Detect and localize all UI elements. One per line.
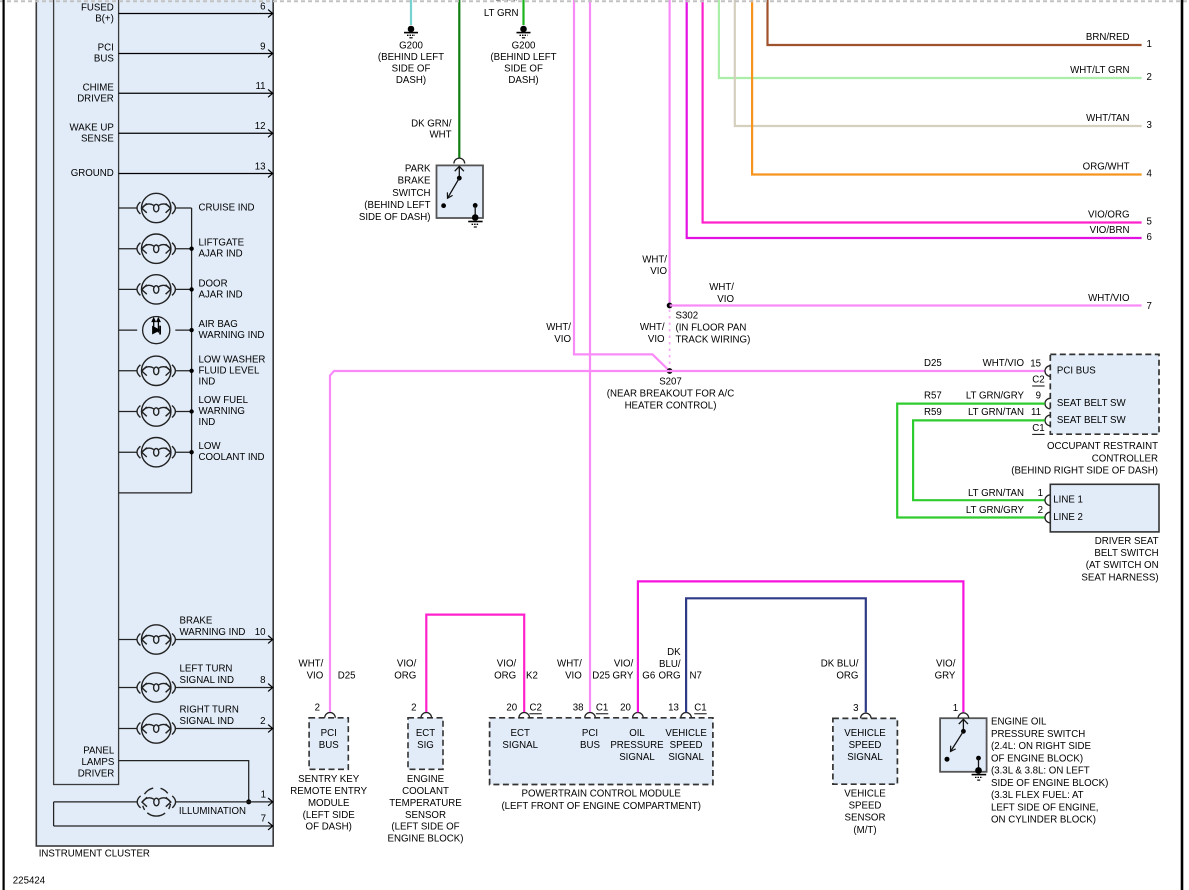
svg-text:BUS: BUS [580, 740, 600, 751]
svg-text:S207: S207 [659, 377, 682, 388]
wire LT GRN to G200 right [522, 0, 524, 25]
svg-text:8: 8 [260, 675, 265, 686]
svg-text:DRIVER: DRIVER [77, 93, 114, 104]
wire DK GRN/WHT to park brake switch [458, 0, 460, 158]
svg-text:AIR BAG: AIR BAG [199, 319, 238, 330]
svg-text:(LEFT FRONT OF ENGINE COMPARTM: (LEFT FRONT OF ENGINE COMPARTMENT) [501, 801, 701, 812]
wire VIO/ORG ect sensor to PCM [426, 615, 524, 713]
wire wake up sense pin 12 [119, 132, 273, 134]
svg-text:C2: C2 [530, 702, 542, 713]
svg-text:VEHICLE: VEHICLE [844, 789, 886, 800]
wire WHT/VIO branch A from top to S207 [574, 0, 670, 371]
svg-text:RIGHT TURN: RIGHT TURN [180, 704, 239, 715]
wire fused b+ pin 6 [119, 13, 273, 15]
low fuel warning ind lamp [119, 411, 138, 413]
wire ORG/WHT pin 4 [752, 0, 1142, 175]
splice S302 [667, 303, 673, 309]
svg-text:B(+): B(+) [95, 14, 114, 25]
park brake switch internals [458, 167, 460, 179]
svg-text:ILLUMINATION: ILLUMINATION [179, 806, 246, 817]
svg-text:VIO/BRN: VIO/BRN [1090, 225, 1130, 236]
svg-text:VEHICLE: VEHICLE [665, 728, 707, 739]
svg-text:TEMPERATURE: TEMPERATURE [389, 798, 462, 809]
svg-text:(2.4L: ON RIGHT SIDE: (2.4L: ON RIGHT SIDE [991, 741, 1091, 752]
illumination return pin 7 [54, 825, 273, 827]
svg-text:OF DASH): OF DASH) [306, 822, 352, 833]
svg-text:SPEED: SPEED [670, 740, 703, 751]
svg-text:ENGINE: ENGINE [407, 774, 445, 785]
svg-text:SPEED: SPEED [849, 801, 882, 812]
powertrain control module box [490, 718, 713, 785]
svg-text:CONTROLLER: CONTROLLER [1092, 453, 1158, 464]
svg-text:3: 3 [853, 703, 858, 714]
svg-text:ON CYLINDER BLOCK): ON CYLINDER BLOCK) [991, 815, 1096, 826]
svg-text:WHT/: WHT/ [642, 254, 667, 265]
svg-text:LINE 2: LINE 2 [1053, 512, 1083, 523]
svg-text:ORG: ORG [659, 671, 681, 682]
svg-text:BRAKE: BRAKE [398, 176, 431, 187]
svg-text:N7: N7 [690, 671, 702, 682]
svg-text:LT GRN/TAN: LT GRN/TAN [968, 407, 1024, 418]
svg-text:WHT/LT GRN: WHT/LT GRN [1070, 65, 1129, 76]
wire LT GRN/TAN R59 ORC pin 11 to seat belt switch line 1 [913, 420, 1045, 500]
svg-text:SIG: SIG [417, 740, 434, 751]
svg-text:SPEED: SPEED [849, 740, 882, 751]
svg-text:VIO: VIO [648, 334, 665, 345]
wire BRN/RED pin 1 [768, 0, 1142, 45]
svg-text:WHT/TAN: WHT/TAN [1086, 113, 1129, 124]
lamp collector bus line [191, 208, 193, 493]
svg-text:WARNING: WARNING [199, 406, 245, 417]
svg-text:SIGNAL: SIGNAL [668, 752, 704, 763]
svg-text:WAKE UP: WAKE UP [69, 122, 113, 133]
air bag warning ind (LED) [119, 329, 138, 331]
panel lamps driver wire [119, 761, 249, 802]
svg-text:15: 15 [1030, 358, 1041, 369]
svg-text:2: 2 [260, 716, 265, 727]
svg-text:11: 11 [1031, 407, 1041, 418]
svg-text:ENGINE OIL: ENGINE OIL [991, 717, 1047, 728]
svg-text:VIO: VIO [554, 334, 571, 345]
svg-text:9: 9 [260, 41, 265, 52]
svg-text:BELT SWITCH: BELT SWITCH [1094, 548, 1158, 559]
svg-text:GRY: GRY [935, 670, 956, 681]
wire WHT/VIO branch B from top to PCM pin 38 [589, 0, 591, 712]
svg-text:(LEFT SIDE: (LEFT SIDE [303, 810, 356, 821]
svg-text:LT GRN/GRY: LT GRN/GRY [966, 505, 1025, 516]
svg-text:C1: C1 [596, 702, 608, 713]
instrument cluster inner module box [54, 0, 119, 785]
svg-text:REMOTE ENTRY: REMOTE ENTRY [290, 786, 367, 797]
svg-text:LOW FUEL: LOW FUEL [199, 395, 249, 406]
svg-text:LT GRN: LT GRN [484, 8, 519, 19]
svg-text:SIDE OF: SIDE OF [392, 64, 431, 75]
park brake switch ground [468, 221, 482, 223]
svg-text:2: 2 [315, 702, 320, 713]
svg-text:1: 1 [1147, 39, 1152, 50]
svg-text:WHT/: WHT/ [640, 322, 665, 333]
svg-text:LT GRN/GRY: LT GRN/GRY [966, 391, 1025, 402]
svg-text:PARK: PARK [405, 163, 431, 174]
svg-text:LT GRN/TAN: LT GRN/TAN [968, 488, 1024, 499]
svg-text:1: 1 [261, 789, 266, 800]
svg-text:R57: R57 [924, 391, 942, 402]
svg-text:3: 3 [1147, 120, 1152, 131]
svg-text:1: 1 [1038, 488, 1043, 499]
svg-text:LOW: LOW [199, 441, 222, 452]
svg-text:WHT/: WHT/ [299, 658, 324, 669]
wire VIO/BRN pin 6 [687, 0, 1142, 238]
ORC pin 15 connector [1045, 366, 1050, 377]
svg-text:DASH): DASH) [508, 75, 538, 86]
svg-text:FUSED: FUSED [81, 3, 114, 14]
ORC pin 9 connector [1045, 398, 1050, 409]
svg-text:SIDE OF: SIDE OF [504, 64, 543, 75]
PCM pin 20 C2 ect signal connector [519, 712, 530, 717]
svg-text:10: 10 [255, 627, 266, 638]
svg-text:PCI: PCI [98, 43, 114, 54]
svg-text:SIGNAL IND: SIGNAL IND [180, 675, 235, 686]
svg-text:D25: D25 [924, 358, 942, 369]
svg-text:SIGNAL: SIGNAL [847, 752, 883, 763]
svg-text:ECT: ECT [416, 728, 435, 739]
svg-text:C1: C1 [1032, 423, 1044, 434]
svg-text:CRUISE IND: CRUISE IND [199, 203, 255, 214]
svg-text:AJAR IND: AJAR IND [199, 289, 243, 300]
svg-text:D25: D25 [592, 671, 610, 682]
svg-text:WARNING IND: WARNING IND [180, 627, 246, 638]
svg-text:PCI: PCI [321, 728, 337, 739]
svg-text:LINE 1: LINE 1 [1053, 495, 1083, 506]
svg-text:ORG: ORG [394, 670, 416, 681]
svg-text:IND: IND [199, 417, 216, 428]
svg-text:VIO: VIO [307, 670, 324, 681]
svg-text:9: 9 [1036, 391, 1041, 402]
svg-text:4: 4 [1147, 169, 1153, 180]
engine oil pressure switch ground [972, 774, 987, 776]
svg-text:OF ENGINE BLOCK): OF ENGINE BLOCK) [991, 753, 1083, 764]
DSBS line 2 connector [1045, 512, 1050, 523]
svg-text:WHT: WHT [429, 129, 451, 140]
svg-text:(LEFT SIDE OF: (LEFT SIDE OF [391, 822, 459, 833]
svg-text:C2: C2 [1032, 375, 1044, 386]
park brake switch connector arc [454, 158, 465, 163]
svg-text:2: 2 [1147, 72, 1152, 83]
svg-text:WHT/VIO: WHT/VIO [1088, 293, 1130, 304]
svg-text:IND: IND [199, 376, 216, 387]
wire WHT/LT GRN pin 2 [719, 0, 1142, 78]
svg-text:(BEHIND LEFT: (BEHIND LEFT [490, 52, 556, 63]
brake warning ind lamp pin 10 [119, 639, 138, 641]
liftgate ajar ind lamp [119, 248, 138, 250]
svg-text:SEAT BELT SW: SEAT BELT SW [1057, 415, 1127, 426]
svg-text:(AT SWITCH ON: (AT SWITCH ON [1086, 560, 1159, 571]
svg-text:7: 7 [1147, 301, 1152, 312]
svg-text:VIO/ORG: VIO/ORG [1088, 210, 1129, 221]
svg-text:D25: D25 [338, 670, 356, 681]
unlabeled wire segment S302 to S207 [669, 310, 671, 368]
svg-text:WHT/: WHT/ [709, 282, 734, 293]
svg-text:20: 20 [620, 702, 631, 713]
svg-text:INSTRUMENT CLUSTER: INSTRUMENT CLUSTER [39, 848, 150, 859]
svg-text:BLU/: BLU/ [659, 659, 681, 670]
svg-text:SENSOR: SENSOR [845, 813, 886, 824]
wire DK BLU/ORG PCM to vehicle speed sensor [686, 598, 866, 712]
svg-text:VIO/: VIO/ [614, 659, 634, 670]
svg-text:PANEL: PANEL [83, 746, 115, 757]
svg-text:LIFTGATE: LIFTGATE [199, 238, 245, 249]
ground G200 right [520, 26, 527, 33]
svg-text:ECT: ECT [511, 728, 530, 739]
svg-text:VIO: VIO [650, 266, 667, 277]
ground G200 left [408, 26, 415, 33]
svg-text:ORG/WHT: ORG/WHT [1083, 162, 1130, 173]
svg-text:2: 2 [411, 702, 416, 713]
svg-text:OCCUPANT RESTRAINT: OCCUPANT RESTRAINT [1047, 441, 1158, 452]
svg-text:SIGNAL: SIGNAL [502, 740, 538, 751]
engine oil pressure switch internals [962, 719, 964, 731]
svg-text:VEHICLE: VEHICLE [844, 728, 886, 739]
svg-text:SEAT HARNESS): SEAT HARNESS) [1081, 572, 1158, 583]
svg-text:SWITCH: SWITCH [392, 188, 430, 199]
svg-text:BRN/RED: BRN/RED [1086, 32, 1130, 43]
svg-text:K2: K2 [526, 670, 538, 681]
svg-text:TRACK WIRING): TRACK WIRING) [676, 334, 751, 345]
driver seat belt switch box [1050, 484, 1159, 532]
svg-text:G6: G6 [642, 671, 655, 682]
svg-text:PRESSURE: PRESSURE [610, 740, 664, 751]
svg-text:(3.3L FLEX FUEL: AT: (3.3L FLEX FUEL: AT [991, 790, 1084, 801]
svg-text:LOW WASHER: LOW WASHER [199, 354, 266, 365]
svg-text:13: 13 [668, 702, 679, 713]
PCM pin 20 oil pressure signal connector [633, 712, 644, 717]
svg-text:MODULE: MODULE [308, 798, 350, 809]
svg-text:C1: C1 [694, 702, 706, 713]
svg-text:BUS: BUS [94, 54, 114, 65]
instrument cluster box [36, 0, 273, 846]
svg-text:38: 38 [573, 702, 584, 713]
svg-text:SENSE: SENSE [81, 133, 114, 144]
svg-text:7: 7 [261, 814, 266, 825]
wire chime driver pin 11 [119, 92, 273, 94]
vehicle speed signal box [833, 718, 898, 784]
svg-text:SENSOR: SENSOR [405, 810, 446, 821]
svg-text:DASH): DASH) [396, 75, 426, 86]
svg-text:PCI BUS: PCI BUS [1057, 366, 1096, 377]
svg-text:PCI: PCI [582, 728, 598, 739]
svg-text:5: 5 [1147, 217, 1152, 228]
page border frame [0, 0, 1189, 2]
svg-text:WHT/VIO: WHT/VIO [983, 358, 1025, 369]
svg-text:11: 11 [255, 81, 265, 92]
wire WHT/VIO S207 left branch down to sentry key module [330, 371, 670, 712]
svg-text:POWERTRAIN CONTROL MODULE: POWERTRAIN CONTROL MODULE [522, 789, 682, 800]
svg-text:G200: G200 [399, 41, 423, 52]
svg-text:SIGNAL: SIGNAL [619, 752, 655, 763]
svg-text:CHIME: CHIME [83, 82, 115, 93]
PCM pin 38 C1 pci bus connector [585, 712, 596, 717]
low coolant ind lamp [119, 451, 138, 453]
occupant restraint controller box [1050, 354, 1159, 434]
svg-text:(BEHIND LEFT: (BEHIND LEFT [378, 52, 444, 63]
svg-text:G200: G200 [512, 41, 536, 52]
svg-text:HEATER CONTROL): HEATER CONTROL) [625, 401, 717, 412]
DSBS line 1 connector [1045, 495, 1050, 506]
svg-text:SENTRY KEY: SENTRY KEY [298, 774, 360, 785]
svg-text:VIO/: VIO/ [936, 658, 956, 669]
ORC pin 11 connector [1045, 415, 1050, 426]
svg-text:SIDE OF ENGINE BLOCK): SIDE OF ENGINE BLOCK) [991, 778, 1108, 789]
wire pci bus pin 9 [119, 53, 273, 55]
svg-text:ENGINE BLOCK): ENGINE BLOCK) [388, 834, 464, 845]
svg-text:R59: R59 [924, 407, 942, 418]
svg-text:2: 2 [1038, 505, 1043, 516]
svg-text:(NEAR BREAKOUT FOR A/C: (NEAR BREAKOUT FOR A/C [607, 389, 734, 400]
wire to G200 left (teal) [410, 0, 412, 25]
left turn signal ind lamp pin 8 [119, 687, 138, 689]
svg-text:DRIVER: DRIVER [78, 769, 115, 780]
svg-text:6: 6 [1147, 232, 1152, 243]
svg-text:PRESSURE SWITCH: PRESSURE SWITCH [991, 729, 1085, 740]
svg-text:SIDE OF DASH): SIDE OF DASH) [359, 212, 431, 223]
svg-text:(IN FLOOR PAN: (IN FLOOR PAN [676, 322, 747, 333]
svg-text:VIO: VIO [717, 294, 734, 305]
svg-text:(BEHIND LEFT: (BEHIND LEFT [364, 200, 430, 211]
splice S207 [667, 368, 673, 374]
door ajar ind lamp [119, 288, 138, 290]
svg-text:DK GRN/: DK GRN/ [411, 119, 452, 130]
svg-text:AJAR IND: AJAR IND [199, 249, 243, 260]
cruise ind lamp [119, 207, 138, 209]
wire WHT/TAN pin 3 [735, 0, 1142, 126]
wire ground pin 13 [119, 173, 273, 175]
svg-text:WHT/: WHT/ [546, 322, 571, 333]
svg-text:13: 13 [255, 161, 266, 172]
svg-text:1: 1 [953, 703, 958, 714]
svg-text:VIO: VIO [565, 671, 582, 682]
svg-text:LEFT SIDE OF ENGINE,: LEFT SIDE OF ENGINE, [991, 802, 1098, 813]
svg-text:FLUID LEVEL: FLUID LEVEL [199, 365, 260, 376]
wire WHT/VIO S207 to occupant restraint controller pin 15 [670, 370, 1045, 372]
PCM pin 13 C1 vehicle speed connector [681, 712, 692, 717]
svg-text:6: 6 [260, 1, 265, 12]
svg-text:GROUND: GROUND [71, 168, 114, 179]
svg-text:225424: 225424 [13, 875, 46, 886]
svg-text:WARNING IND: WARNING IND [199, 330, 265, 341]
svg-text:(M/T): (M/T) [853, 825, 876, 836]
sentry key remote entry module box [309, 718, 348, 770]
svg-text:LAMPS: LAMPS [81, 757, 114, 768]
wire LT GRN/GRY R57 ORC pin 9 to seat belt switch line 2 [897, 404, 1045, 518]
svg-text:(BEHIND RIGHT SIDE OF DASH): (BEHIND RIGHT SIDE OF DASH) [1011, 466, 1158, 477]
svg-text:VIO/: VIO/ [397, 658, 417, 669]
svg-text:DK: DK [667, 647, 681, 658]
svg-text:VIO/: VIO/ [497, 658, 517, 669]
wire VIO/GRY PCM to engine oil pressure switch [638, 581, 964, 712]
svg-text:ORG: ORG [836, 670, 858, 681]
svg-text:(3.3L & 3.8L: ON LEFT: (3.3L & 3.8L: ON LEFT [991, 766, 1090, 777]
svg-text:DOOR: DOOR [199, 278, 228, 289]
low washer fluid level ind lamp [119, 370, 138, 372]
svg-text:BUS: BUS [319, 740, 339, 751]
svg-text:GRY: GRY [612, 671, 633, 682]
park brake switch box [437, 165, 484, 218]
svg-text:WHT/: WHT/ [557, 659, 582, 670]
svg-text:COOLANT: COOLANT [402, 786, 449, 797]
wire VIO/ORG pin 5 [703, 0, 1142, 223]
right turn signal ind lamp pin 2 [119, 728, 138, 730]
junction dot illumination [246, 799, 251, 804]
svg-text:12: 12 [255, 121, 266, 132]
svg-text:SEAT BELT SW: SEAT BELT SW [1057, 398, 1127, 409]
svg-text:SIGNAL IND: SIGNAL IND [180, 716, 235, 727]
engine oil pressure switch box [940, 718, 987, 772]
svg-text:S302: S302 [676, 310, 699, 321]
svg-text:OIL: OIL [629, 728, 645, 739]
svg-text:ORG: ORG [494, 670, 516, 681]
wire WHT/VIO S302 to pin 7 [670, 304, 1142, 306]
svg-text:DRIVER SEAT: DRIVER SEAT [1095, 536, 1159, 547]
svg-text:BRAKE: BRAKE [180, 615, 213, 626]
svg-text:20: 20 [506, 702, 517, 713]
wire WHT/VIO branch C from top to S302 [668, 0, 670, 306]
svg-text:LEFT TURN: LEFT TURN [180, 663, 233, 674]
illumination lamp pin 1 [54, 801, 138, 803]
svg-text:DK BLU/: DK BLU/ [821, 658, 859, 669]
svg-text:COOLANT IND: COOLANT IND [199, 452, 265, 463]
engine coolant temperature sensor box [408, 718, 443, 770]
